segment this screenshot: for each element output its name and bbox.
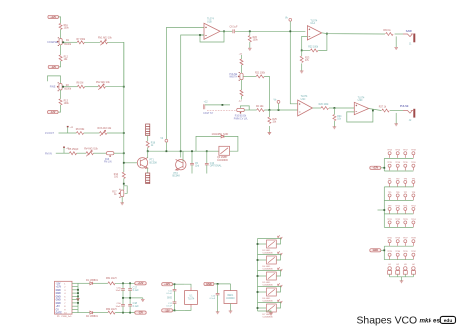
- svg-text:H4: H4: [412, 264, 414, 266]
- svg-text:0.1uF: 0.1uF: [133, 305, 140, 308]
- wire: [59, 17, 61, 24]
- power -12V: [48, 65, 59, 68]
- wire -12 rail: [78, 312, 90, 314]
- wire: [84, 132, 100, 134]
- wire feedback: [318, 34, 327, 51]
- wire output: [220, 30, 232, 32]
- svg-text:-12V: -12V: [165, 309, 170, 312]
- potentiometer R2 FINE: [59, 84, 62, 91]
- wire: [264, 109, 297, 111]
- svg-text:U1D: U1D: [358, 99, 363, 102]
- wire: [390, 110, 403, 112]
- svg-text:TP7: TP7: [404, 192, 407, 194]
- resistor R10b: [241, 80, 243, 90]
- op-amp U1D: [354, 102, 368, 114]
- svg-text:REF1: REF1: [227, 295, 234, 297]
- ground: [301, 63, 303, 70]
- svg-text:R26 100k: R26 100k: [319, 104, 330, 106]
- wire tp group A: [383, 158, 385, 171]
- svg-text:R27 1k: R27 1k: [379, 107, 387, 109]
- svg-text:RV4 ADJ 10k: RV4 ADJ 10k: [84, 147, 98, 150]
- resistor R27: [382, 109, 390, 112]
- svg-text:R7 150k: R7 150k: [77, 39, 86, 41]
- svg-text:FAST SY: FAST SY: [203, 112, 213, 115]
- svg-text:TP8: TP8: [412, 192, 415, 194]
- svg-text:U1C: U1C: [301, 98, 306, 101]
- diode D1: [90, 282, 93, 285]
- resistor R6: [76, 132, 83, 135]
- svg-text:TP20: TP20: [411, 162, 416, 164]
- capacitor C16: [122, 298, 124, 305]
- svg-text:BC308: BC308: [150, 162, 158, 164]
- wire: [56, 152, 70, 154]
- svg-text:R8 1M: R8 1M: [77, 82, 84, 84]
- IC U1 power: [185, 291, 198, 305]
- svg-text:+12V: +12V: [56, 287, 62, 289]
- wire: [244, 109, 256, 111]
- junction: [114, 152, 124, 154]
- svg-text:BC548: BC548: [173, 176, 181, 178]
- wire: [207, 150, 219, 152]
- power tap +12: [63, 148, 65, 154]
- svg-text:TP28: TP28: [411, 238, 416, 240]
- power +12V: [135, 282, 146, 285]
- svg-text:TP19: TP19: [403, 162, 408, 164]
- svg-text:GND: GND: [167, 298, 172, 300]
- ground: [395, 113, 397, 124]
- svg-text:TP15: TP15: [387, 162, 392, 164]
- svg-text:PWM CV LVL: PWM CV LVL: [234, 118, 249, 120]
- ground: [120, 203, 124, 205]
- svg-text:TP10: TP10: [395, 205, 400, 207]
- power -12V: [48, 111, 59, 114]
- svg-text:TP25: TP25: [387, 238, 392, 240]
- svg-text:R22 100k: R22 100k: [308, 47, 319, 49]
- svg-text:R30 1k: R30 1k: [383, 30, 391, 32]
- capacitor C15: [122, 283, 124, 288]
- wire: [58, 105, 61, 112]
- svg-text:GND: GND: [56, 293, 61, 295]
- svg-text:GND: GND: [56, 303, 61, 305]
- op-amp U1B: [204, 23, 220, 39]
- dashed link: [207, 109, 237, 111]
- wire: [85, 86, 98, 88]
- svg-text:TP4: TP4: [412, 178, 415, 180]
- ground: [249, 42, 251, 48]
- wire led chain: [257, 239, 259, 312]
- capacitor C18: [129, 298, 131, 305]
- svg-text:TP21: TP21: [387, 219, 392, 221]
- resistor R14: [122, 172, 125, 179]
- svg-text:0.1uF: 0.1uF: [210, 298, 216, 300]
- op-amp U1A: [307, 26, 321, 40]
- svg-text:GND: GND: [56, 290, 61, 292]
- svg-text:TP6: TP6: [396, 192, 399, 194]
- ground: [77, 295, 79, 298]
- potentiometer R16 FM LIN: [106, 152, 114, 155]
- resistor R7: [77, 41, 84, 44]
- wire: [147, 168, 149, 173]
- svg-text:R21 100k: R21 100k: [255, 72, 266, 74]
- svg-text:10uF: 10uF: [116, 290, 122, 292]
- wire: [214, 283, 231, 285]
- ground: [142, 298, 144, 299]
- svg-text:WIDTH: WIDTH: [229, 76, 237, 79]
- wire: [108, 42, 124, 86]
- svg-text:PULSE: PULSE: [400, 104, 409, 108]
- junction: [107, 132, 124, 134]
- wire: [60, 90, 62, 99]
- svg-text:H1: H1: [388, 264, 390, 266]
- wire: [395, 33, 403, 35]
- wire PT1 base: [124, 162, 138, 164]
- wire gnd bus: [77, 283, 79, 312]
- wire output SAW: [322, 33, 385, 34]
- svg-text:TP14: TP14: [395, 150, 400, 152]
- svg-text:TP31: TP31: [403, 251, 408, 253]
- potentiometer R1 COARSE: [59, 39, 62, 45]
- svg-text:TP26: TP26: [395, 238, 400, 240]
- power MIXED: [370, 166, 381, 169]
- wire: [175, 309, 185, 311]
- wire Vb rail: [148, 150, 207, 152]
- svg-text:TP17: TP17: [403, 150, 408, 152]
- svg-text:TP16: TP16: [395, 162, 400, 164]
- svg-text:U1A: U1A: [310, 22, 315, 25]
- svg-text:0.1uF: 0.1uF: [166, 306, 172, 308]
- capacitor C2: [69, 152, 76, 155]
- svg-text:FB2 10uH: FB2 10uH: [106, 309, 117, 311]
- wire: [329, 107, 354, 109]
- svg-text:C6 1uF: C6 1uF: [230, 26, 239, 29]
- junction: [105, 86, 123, 88]
- diode D1 1N4148: [196, 136, 221, 151]
- wire: [173, 309, 175, 311]
- wire wiper: [243, 75, 248, 77]
- capacitor C6: [233, 29, 234, 33]
- wire output: [369, 109, 382, 111]
- resistor R18: [146, 141, 149, 148]
- svg-text:1N4148W_SOD: 1N4148W_SOD: [212, 134, 229, 136]
- ground: [333, 121, 335, 127]
- svg-text:-12V: -12V: [50, 111, 55, 114]
- svg-text:+12: +12: [204, 102, 209, 104]
- ground: [401, 277, 403, 281]
- wire: [60, 45, 62, 55]
- svg-text:+12V: +12V: [164, 283, 170, 286]
- svg-text:+12V: +12V: [138, 282, 144, 285]
- trimmer RV3: [100, 132, 107, 135]
- wire: [121, 197, 123, 203]
- svg-text:+12V: +12V: [372, 167, 378, 170]
- svg-text:-12V: -12V: [51, 66, 56, 69]
- LED D4: [258, 259, 267, 261]
- ground: [268, 126, 270, 132]
- svg-text:R6 150k: R6 150k: [76, 129, 85, 131]
- capacitor C13: [206, 151, 208, 163]
- svg-text:GND: GND: [56, 296, 61, 298]
- svg-text:R2 10k: R2 10k: [256, 106, 264, 108]
- svg-text:FM IN: FM IN: [45, 152, 52, 155]
- resistor R22b: [257, 109, 265, 112]
- svg-text:RV2 ADJ 10k: RV2 ADJ 10k: [96, 81, 110, 84]
- trimmer R17: [121, 190, 124, 197]
- transistor Q3 sync: [219, 146, 230, 155]
- svg-text:TP12: TP12: [411, 205, 416, 207]
- svg-text:+5V: +5V: [56, 306, 61, 308]
- svg-text:0.1uF: 0.1uF: [166, 293, 172, 295]
- wire: [59, 132, 77, 134]
- svg-text:D2 1N5819: D2 1N5819: [86, 316, 98, 318]
- svg-text:U1B: U1B: [207, 20, 212, 23]
- power tap +12: [67, 127, 69, 133]
- wire feedback: [200, 31, 224, 42]
- LED D3: [258, 243, 267, 245]
- wire tp group C: [383, 246, 385, 260]
- svg-text:C2040906: C2040906: [217, 160, 228, 162]
- svg-text:R5 150pF: R5 150pF: [68, 149, 79, 151]
- resistor R30: [386, 33, 394, 36]
- svg-text:es: es: [433, 317, 440, 324]
- trimmer RV1: [100, 41, 107, 44]
- svg-text:C2040906: C2040906: [263, 317, 274, 319]
- power GND: [370, 249, 381, 252]
- wire: [48, 76, 61, 84]
- transistor PT1: [137, 158, 147, 168]
- svg-text:D1 1N5819: D1 1N5819: [86, 280, 98, 282]
- wire: [62, 41, 77, 43]
- wire: [59, 61, 61, 67]
- LED D6: [258, 291, 267, 293]
- resistor R8: [77, 85, 84, 88]
- connector J1 power: [55, 281, 73, 314]
- svg-text:TP24: TP24: [411, 219, 416, 221]
- wire: [147, 136, 149, 142]
- wire: [173, 284, 175, 289]
- svg-text:TP32: TP32: [411, 251, 416, 253]
- power +12V: [162, 283, 173, 286]
- resistor R23: [301, 50, 303, 56]
- svg-text:+12V: +12V: [50, 16, 56, 19]
- IC REF1: [230, 284, 232, 291]
- svg-text:TP5: TP5: [388, 192, 391, 194]
- wire: [93, 152, 106, 154]
- ground: [216, 312, 220, 314]
- svg-text:PT2: PT2: [174, 173, 179, 175]
- svg-text:(1n): (1n): [195, 166, 199, 168]
- svg-text:CV: CV: [56, 309, 60, 311]
- svg-text:TP30: TP30: [395, 251, 400, 253]
- svg-text:TL074: TL074: [188, 298, 195, 300]
- ground: [258, 311, 272, 313]
- wire: [205, 104, 230, 106]
- svg-text:R10 B100k: R10 B100k: [235, 116, 247, 118]
- svg-text:TP13: TP13: [387, 150, 392, 152]
- capacitor C12: [173, 302, 177, 303]
- svg-text:TP3: TP3: [404, 178, 407, 180]
- wire Vb vertical: [290, 21, 297, 103]
- power -12V: [135, 311, 146, 314]
- svg-text:TP27: TP27: [403, 238, 408, 240]
- svg-text:PT1: PT1: [150, 160, 155, 162]
- svg-text:SAW: SAW: [406, 29, 412, 33]
- svg-text:LM4040: LM4040: [226, 298, 235, 300]
- wire: [185, 307, 191, 310]
- wire: [147, 148, 149, 152]
- resistor R24: [333, 108, 335, 115]
- capacitor C11: [173, 290, 177, 291]
- wire output: [312, 107, 321, 109]
- junction: [206, 150, 208, 152]
- svg-text:FB1 10uH: FB1 10uH: [106, 278, 117, 280]
- wire: [174, 296, 176, 302]
- svg-text:GND: GND: [56, 300, 61, 302]
- resistor R20: [249, 30, 251, 32]
- ground: [230, 304, 232, 311]
- resistor R15 tempco: [146, 173, 150, 184]
- wire PT2 collector to integrator input: [181, 35, 204, 158]
- wire: [165, 142, 167, 151]
- Vb port: [277, 101, 280, 104]
- resistor R13: [59, 99, 62, 105]
- svg-text:TP9: TP9: [388, 205, 391, 207]
- svg-text:100k: 100k: [64, 103, 70, 105]
- svg-text:TP18: TP18: [411, 150, 416, 152]
- wire tp group B: [383, 187, 385, 228]
- svg-text:FM LIN: FM LIN: [104, 162, 112, 164]
- svg-text:10uF: 10uF: [116, 306, 122, 308]
- wire: [235, 30, 305, 32]
- svg-text:COARSE: COARSE: [47, 41, 58, 44]
- wire: [182, 151, 184, 161]
- wire: [217, 284, 219, 294]
- svg-text:H2: H2: [396, 264, 398, 266]
- wire: [115, 312, 135, 314]
- svg-text:RV3 ADJ 10k: RV3 ADJ 10k: [98, 127, 112, 130]
- svg-text:C13: C13: [210, 163, 215, 165]
- wire: [115, 282, 135, 284]
- svg-text:-12V: -12V: [138, 312, 143, 315]
- svg-text:1V/OCT: 1V/OCT: [45, 132, 55, 135]
- svg-text:Shapes VCO: Shapes VCO: [357, 316, 418, 327]
- wire: [84, 41, 100, 43]
- transistor PT2: [176, 160, 186, 170]
- trimmer RV4: [86, 152, 93, 155]
- LED D7: [258, 307, 267, 309]
- power GND: [204, 282, 214, 285]
- svg-text:edu: edu: [444, 318, 453, 324]
- potentiometer R10 PWM LVL: [237, 108, 245, 111]
- wire: [175, 283, 185, 285]
- svg-text:TP22: TP22: [395, 219, 400, 221]
- svg-text:TP2: TP2: [396, 178, 399, 180]
- wire +12 rail: [78, 282, 90, 284]
- LED D5: [258, 275, 267, 277]
- resistor R11: [59, 23, 62, 29]
- mounting pads: [390, 276, 414, 278]
- wire gnd mid: [123, 297, 143, 299]
- op-amp U1C comparator: [298, 100, 313, 116]
- wire: [185, 284, 191, 287]
- svg-text:OPTIONAL: OPTIONAL: [210, 165, 222, 168]
- capacitor C14: [216, 294, 220, 295]
- diode D2: [90, 311, 93, 314]
- Vb port: [165, 139, 168, 142]
- svg-text:H3: H3: [404, 264, 406, 266]
- ground: [395, 36, 397, 47]
- svg-text:100k: 100k: [64, 28, 70, 30]
- wire: [378, 209, 385, 211]
- resistor R26: [321, 107, 329, 110]
- svg-text:GND: GND: [373, 249, 379, 252]
- svg-text:100k: 100k: [253, 40, 259, 42]
- capacitor C17: [129, 283, 131, 288]
- wire inverting: [302, 36, 308, 50]
- svg-text:FINE: FINE: [50, 86, 56, 89]
- junction: [123, 179, 125, 191]
- svg-text:TP29: TP29: [387, 251, 392, 253]
- wire: [77, 152, 86, 154]
- svg-text:TP1: TP1: [388, 178, 391, 180]
- svg-text:TP11: TP11: [403, 205, 407, 207]
- wire summing bus: [123, 42, 125, 172]
- resistor R21: [249, 75, 257, 77]
- resistor R25: [268, 110, 270, 117]
- potentiometer RV PW: [241, 65, 243, 73]
- Vb port: [289, 18, 292, 21]
- svg-text:RV1 ADJ 10k: RV1 ADJ 10k: [98, 37, 112, 40]
- svg-text:-12V: -12V: [56, 283, 61, 285]
- resistor R22: [302, 49, 310, 51]
- resistor R12: [59, 55, 62, 61]
- resistor R19 tempco: [146, 124, 150, 136]
- ferrite FB1: [93, 282, 108, 284]
- wire: [264, 76, 269, 110]
- svg-text:TP23: TP23: [403, 219, 408, 221]
- capacitor C5: [191, 151, 193, 163]
- power -12V: [162, 309, 173, 312]
- wire: [147, 151, 149, 158]
- svg-text:PWR_2x5: PWR_2x5: [62, 316, 73, 318]
- wire: [224, 136, 238, 151]
- svg-text:GND: GND: [206, 283, 212, 286]
- svg-text:0.1uF: 0.1uF: [133, 289, 140, 292]
- trimmer RV2: [98, 85, 105, 88]
- svg-text:B100k: B100k: [64, 44, 71, 46]
- wire feedback: [347, 111, 373, 122]
- wire: [60, 29, 62, 38]
- wire Vb to integrator: [166, 28, 204, 140]
- wire: [62, 86, 77, 88]
- ferrite FB2: [93, 312, 108, 314]
- svg-text:B100k: B100k: [64, 89, 71, 91]
- power +12V: [48, 15, 59, 18]
